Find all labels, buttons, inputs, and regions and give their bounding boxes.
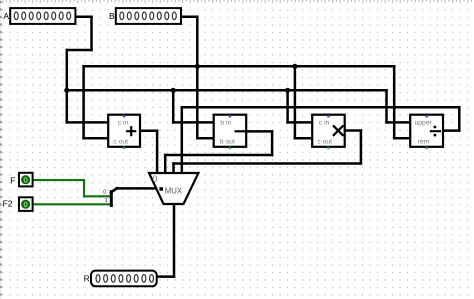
wire B adder drop [82, 66, 85, 138]
svg-text:upper: upper [415, 120, 433, 127]
svg-text:c in: c in [118, 120, 129, 127]
MUX M1 [149, 173, 198, 204]
wire B feed adder [84, 137, 109, 140]
wire divider out [443, 129, 459, 132]
svg-text:c out: c out [317, 139, 332, 146]
svg-text:R: R [84, 273, 90, 283]
svg-text:rem: rem [418, 139, 430, 146]
output pin R [91, 271, 157, 287]
wire adder out [140, 130, 157, 133]
wire subtractor A feed [173, 121, 214, 124]
wire A drop 2 [66, 50, 69, 122]
junction dot A bus multiplier [285, 88, 290, 93]
wire divider A drop [385, 90, 388, 122]
svg-text:0: 0 [24, 176, 28, 185]
wire multiplier A feed [288, 121, 313, 124]
wire divider B feed [394, 137, 410, 140]
svg-text:A: A [3, 11, 9, 21]
svg-text:0: 0 [103, 190, 106, 196]
input pin F2 [19, 197, 33, 211]
wire A drop 1 [90, 17, 93, 50]
wire F leg [84, 195, 111, 197]
wire divider out rise [458, 107, 461, 130]
adder U1 [108, 115, 140, 149]
wire multiplier return [174, 162, 361, 165]
wire select bus [117, 187, 158, 190]
wire A feed adder [67, 121, 108, 124]
wire multiplier A drop [286, 90, 289, 122]
wire A jog [67, 49, 92, 52]
svg-text:b in: b in [220, 120, 231, 127]
wire F drop [83, 180, 85, 196]
junction dot A bus subtractor [171, 88, 176, 93]
wire multiplier out drop [360, 131, 363, 164]
divider U4 [410, 115, 443, 149]
wire multiplier B drop [294, 66, 297, 138]
top clipped toolbar dashes [2, 0, 472, 2]
wire A bus [67, 89, 387, 92]
wire subtractor return [165, 154, 272, 157]
wire MUX in1 drop [156, 131, 159, 173]
svg-text:MUX: MUX [165, 186, 183, 195]
junction dot B bus multiplier [292, 64, 297, 69]
wire subtractor out [246, 130, 272, 133]
svg-text:0: 0 [152, 174, 157, 185]
wire divider return [182, 106, 460, 109]
wire multiplier out [345, 129, 361, 132]
multiplier U3 [312, 115, 345, 149]
wire divider B drop [393, 66, 396, 138]
wire B bus [84, 65, 395, 68]
svg-text:B: B [109, 11, 115, 21]
wire B feed subtractor [197, 137, 213, 140]
input pin B [116, 8, 181, 24]
wire R feed [157, 275, 174, 278]
wire B out [181, 16, 197, 19]
svg-text:c in: c in [319, 120, 330, 127]
wire F out [32, 179, 84, 181]
input pin F [19, 173, 33, 187]
svg-text:F2: F2 [3, 198, 13, 208]
wire MUX in3 drop [172, 164, 175, 174]
junction dot B bus B drop [195, 64, 200, 69]
wire MUX out drop [173, 204, 176, 277]
wire F2 out [32, 203, 111, 205]
junction dot A bus left [64, 88, 69, 93]
left canvas edge strip [0, 0, 2, 299]
input pin A [10, 8, 75, 24]
wire subtractor A drop [172, 90, 175, 122]
svg-text:1: 1 [105, 198, 108, 204]
wire subtractor out drop [271, 131, 274, 155]
wire B drop [196, 17, 199, 138]
wire multiplier B feed [295, 137, 312, 140]
svg-text:b out: b out [220, 139, 235, 146]
wire MUX in4 drop [181, 107, 184, 173]
subtractor U2 [214, 115, 247, 149]
wire A out [76, 16, 92, 19]
wire divider A feed [387, 121, 411, 124]
svg-text:c out: c out [113, 139, 128, 146]
wire MUX in2 drop [164, 155, 167, 173]
svg-text:0: 0 [24, 200, 28, 209]
splitter SP1 [103, 188, 117, 205]
svg-text:F: F [10, 176, 15, 186]
